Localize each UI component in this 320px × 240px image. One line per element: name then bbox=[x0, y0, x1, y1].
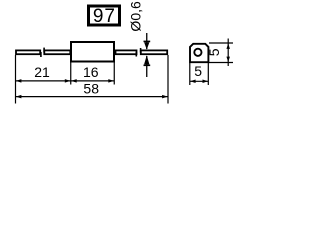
svg-text:16: 16 bbox=[83, 64, 99, 80]
svg-text:5: 5 bbox=[206, 48, 222, 56]
svg-text:21: 21 bbox=[34, 64, 50, 80]
svg-text:97: 97 bbox=[93, 6, 116, 27]
svg-text:58: 58 bbox=[83, 81, 99, 97]
svg-text:5: 5 bbox=[194, 63, 202, 79]
svg-text:Ø0,6: Ø0,6 bbox=[127, 1, 143, 32]
